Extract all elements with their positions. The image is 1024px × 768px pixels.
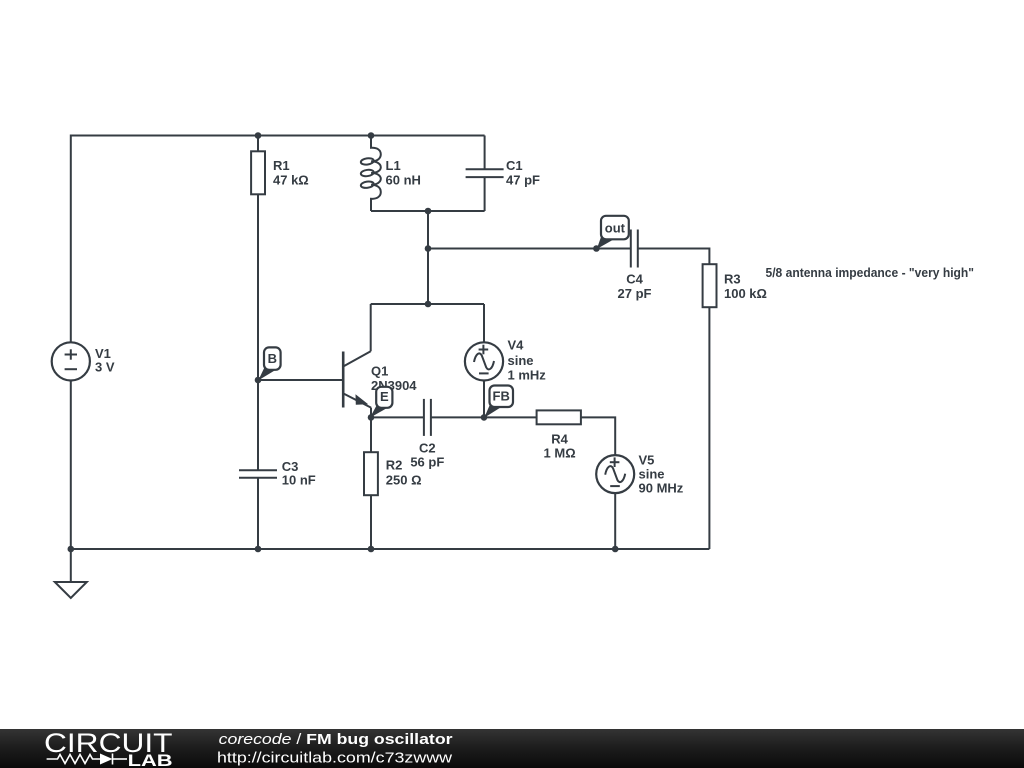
flag E bbox=[370, 387, 393, 418]
node ground bbox=[68, 546, 75, 553]
wire ground stub bbox=[70, 549, 72, 582]
svg-text:R2: R2 bbox=[386, 458, 403, 473]
wire C1 bottom bbox=[484, 177, 486, 211]
wire R1 top stub bbox=[257, 136, 259, 152]
svg-text:5/8 antenna impedance - "very: 5/8 antenna impedance - "very high" bbox=[766, 265, 975, 280]
svg-text:R3: R3 bbox=[724, 272, 741, 287]
svg-text:sine: sine bbox=[639, 467, 665, 482]
capacitor C1 bbox=[466, 169, 504, 177]
footer bar bbox=[0, 729, 1024, 768]
node out tee bbox=[425, 245, 432, 252]
svg-text:1 mHz: 1 mHz bbox=[508, 368, 547, 383]
resistor R2 bbox=[364, 452, 378, 495]
resistor R1 bbox=[251, 151, 265, 194]
wire R4 to V5 corner bbox=[581, 417, 615, 455]
svg-text:http://circuitlab.com/c73zwww: http://circuitlab.com/c73zwww bbox=[217, 750, 452, 767]
svg-text:C2: C2 bbox=[419, 441, 436, 456]
wire C2 to node FB bbox=[431, 416, 484, 418]
flag out bbox=[597, 216, 629, 249]
svg-text:out: out bbox=[605, 221, 626, 236]
capacitor C4 bbox=[631, 230, 638, 268]
svg-text:3 V: 3 V bbox=[95, 360, 115, 375]
node R1 top bbox=[255, 132, 262, 139]
svg-text:60 nH: 60 nH bbox=[386, 173, 421, 188]
svg-text:47 pF: 47 pF bbox=[506, 173, 540, 188]
svg-text:10 nF: 10 nF bbox=[282, 473, 316, 488]
svg-text:100 kΩ: 100 kΩ bbox=[724, 286, 767, 301]
node R2 bottom bbox=[368, 546, 375, 553]
wire R2 bottom bbox=[370, 495, 372, 549]
wire L1 bottom rail of tank bbox=[371, 210, 485, 212]
wire collector vertical bbox=[370, 304, 372, 351]
svg-text:C4: C4 bbox=[626, 272, 643, 287]
svg-text:1 MΩ: 1 MΩ bbox=[544, 446, 576, 461]
svg-text:sine: sine bbox=[508, 353, 534, 368]
source V1 bbox=[52, 342, 90, 380]
svg-text:L1: L1 bbox=[386, 158, 401, 173]
resistor R4 bbox=[537, 410, 581, 424]
svg-text:56 pF: 56 pF bbox=[410, 455, 444, 470]
svg-text:corecode / FM bug oscillator: corecode / FM bug oscillator bbox=[219, 731, 453, 748]
wire V1 bottom to ground rail bbox=[70, 381, 72, 550]
flag B bbox=[258, 347, 280, 380]
svg-text:47 kΩ: 47 kΩ bbox=[273, 173, 309, 188]
node FB bbox=[481, 414, 488, 421]
wire C4 to R3 corner bbox=[638, 249, 710, 265]
capacitor C3 bbox=[239, 470, 277, 477]
wire collector box top bbox=[371, 303, 484, 305]
wire R1 bottom to node B bbox=[257, 194, 259, 380]
source V4 bbox=[465, 342, 503, 380]
transistor Q1 bbox=[343, 351, 371, 417]
wire V5 bottom bbox=[614, 493, 616, 549]
svg-text:B: B bbox=[268, 351, 277, 366]
svg-text:250 Ω: 250 Ω bbox=[386, 472, 422, 487]
footer logo resistor-diode bbox=[47, 754, 127, 765]
node V5 bottom bbox=[612, 546, 619, 553]
svg-text:E: E bbox=[380, 389, 389, 404]
ground symbol bbox=[55, 582, 87, 598]
wire tank to out tee bbox=[427, 211, 429, 249]
wire emitter to R2 bbox=[370, 417, 372, 452]
wire out tee to collector box bbox=[427, 249, 429, 305]
footer logo CIRCUIT LAB bbox=[44, 728, 173, 768]
node E bbox=[368, 414, 375, 421]
resistor R3 bbox=[703, 264, 717, 307]
svg-text:R4: R4 bbox=[551, 432, 568, 447]
wire V4 bottom to node FB bbox=[483, 381, 485, 418]
capacitor C2 bbox=[424, 399, 431, 436]
wire emitter to C2 bbox=[371, 416, 424, 418]
node out bbox=[593, 245, 600, 252]
flag FB bbox=[484, 386, 513, 418]
wire V4 top bbox=[483, 304, 485, 342]
svg-text:27 pF: 27 pF bbox=[618, 286, 652, 301]
wire base bbox=[258, 379, 343, 381]
svg-text:LAB: LAB bbox=[128, 751, 173, 768]
junction nodes bbox=[68, 132, 619, 552]
footer title text bbox=[217, 731, 453, 767]
svg-text:R1: R1 bbox=[273, 158, 290, 173]
node tank bottom bbox=[425, 208, 432, 215]
wire top rail bbox=[71, 136, 485, 343]
wire node FB to R4 bbox=[484, 416, 537, 418]
wire R3 bottom bbox=[708, 307, 710, 549]
svg-text:C1: C1 bbox=[506, 158, 523, 173]
source V5 bbox=[596, 455, 634, 493]
svg-text:V5: V5 bbox=[639, 453, 655, 468]
node L1 top bbox=[368, 132, 375, 139]
wire node B to C3 bbox=[257, 380, 259, 470]
svg-text:90 MHz: 90 MHz bbox=[639, 481, 684, 496]
svg-text:FB: FB bbox=[493, 389, 510, 404]
wire bottom rail bbox=[71, 548, 710, 550]
node B bbox=[255, 377, 262, 384]
wire out branch bbox=[428, 248, 631, 250]
wire C1 branch bbox=[484, 136, 486, 170]
node C3 bottom bbox=[255, 546, 262, 553]
svg-text:Q1: Q1 bbox=[371, 363, 388, 378]
inductor L1 bbox=[360, 136, 380, 212]
wire C3 bottom bbox=[257, 478, 259, 549]
svg-text:V4: V4 bbox=[508, 338, 525, 353]
node collector box bbox=[425, 301, 432, 308]
